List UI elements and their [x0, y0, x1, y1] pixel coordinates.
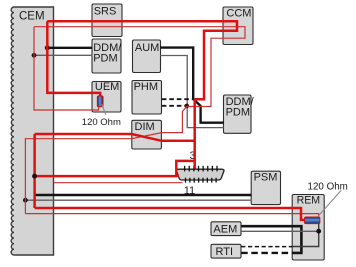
- svg-text:AUM: AUM: [135, 42, 159, 54]
- label pointer line REM resistor: [318, 191, 341, 217]
- wire black CEM to DDM/PDM (D): [47, 47, 92, 49]
- wire dark REM resistor right leg down and left: [292, 223, 318, 246]
- module PSM: [251, 171, 280, 204]
- svg-text:AEM: AEM: [213, 223, 237, 235]
- svg-text:PHM: PHM: [134, 81, 158, 93]
- wire gray AUM right, down to DDM/PDM 2: [160, 56, 224, 128]
- svg-text:UEM: UEM: [95, 81, 119, 93]
- svg-text:RTI: RTI: [216, 246, 234, 258]
- module DIM: [132, 120, 162, 149]
- wire thin red top: CEM to CCM low-speed: [34, 27, 245, 107]
- node junction dot REM (gray/AEM): [316, 229, 321, 234]
- svg-text:120 Ohm: 120 Ohm: [82, 117, 121, 128]
- wire black AUM right, down to DDM/PDM 2: [160, 48, 224, 123]
- wire thick red top bus CEM to CCM high-speed: [47, 21, 237, 99]
- module RTI: [211, 244, 241, 258]
- svg-text:PDM: PDM: [226, 107, 250, 119]
- module AEM: [211, 222, 241, 236]
- wire thick red CCM branch down to DIM level: [193, 99, 196, 168]
- wire gray AEM to REM terminator node: [241, 230, 319, 232]
- node junction dot on thin red vertical (gray PSM branch): [23, 198, 28, 203]
- resistor R2 120 Ohm (REM terminator): [305, 217, 320, 224]
- wire dashed RTI lower to REM black vertical: [241, 252, 293, 254]
- wire thick red DIM diagonal from CEM: [35, 134, 195, 141]
- wire black bus CEM to PSM: [35, 194, 252, 196]
- module DDM/PDM 2: [224, 95, 255, 133]
- wire thick red left vertical to UEM: [47, 21, 100, 96]
- wire thin red CEM down to UEM resistor bottom: [34, 27, 99, 110]
- module REM: [292, 194, 324, 260]
- node junction dot on thin red line (gray branch): [32, 53, 37, 58]
- module AUM: [133, 40, 161, 73]
- wire thin red junction diagonal down to DIM: [162, 106, 187, 132]
- connector J1 (diagnostic socket, pins 3 / 11): [176, 166, 224, 183]
- svg-text:SRS: SRS: [94, 5, 117, 17]
- wire dashed RTI upper to REM: [241, 246, 292, 248]
- svg-text:PDM: PDM: [93, 52, 117, 64]
- wire thick red CEM left vertical (lower): [33, 134, 36, 208]
- wire thin red bottom bus to REM resistor: [25, 214, 318, 218]
- module UEM: [92, 81, 121, 112]
- node junction dot thick red (connector branch): [32, 174, 37, 179]
- wire dashed PHM pin 1 to black branch: [162, 98, 194, 100]
- wire black AEM to REM internal: [241, 226, 301, 253]
- resistor R1 120 Ohm (UEM terminator): [97, 96, 103, 107]
- wire thin red diagonal through DIM and left to CEM: [25, 133, 161, 214]
- node junction dot on red bus at CEM (black branch): [45, 45, 50, 50]
- svg-text:DIM: DIM: [135, 121, 155, 133]
- svg-text:120 Ohm: 120 Ohm: [308, 181, 348, 192]
- svg-text:PSM: PSM: [254, 171, 278, 183]
- module SRS: [92, 4, 122, 37]
- label pointer line UEM resistor: [102, 104, 106, 115]
- svg-text:CEM: CEM: [19, 11, 45, 23]
- module DDM/PDM 1: [92, 39, 122, 73]
- module PHM: [132, 81, 162, 115]
- svg-text:CCM: CCM: [226, 7, 251, 19]
- wire thick red bottom bus CEM to REM resistor: [35, 208, 305, 220]
- wire dashed PHM pin 2 to gray junction: [162, 105, 187, 107]
- node junction dot PHM/gray/thin-red: [185, 104, 190, 109]
- wire gray CEM to PSM: [25, 199, 251, 201]
- module CCM: [223, 7, 253, 45]
- wire thick red branch to connector pin 3: [35, 161, 195, 176]
- module CEM (central electronic module, torn-edge box): [11, 7, 53, 255]
- wire thin red CEM to connector pin 11: [54, 182, 183, 184]
- wire gray CEM to DDM/PDM (P): [34, 54, 93, 56]
- wire thick red stub into connector: [176, 174, 179, 177]
- svg-text:REM: REM: [297, 194, 321, 206]
